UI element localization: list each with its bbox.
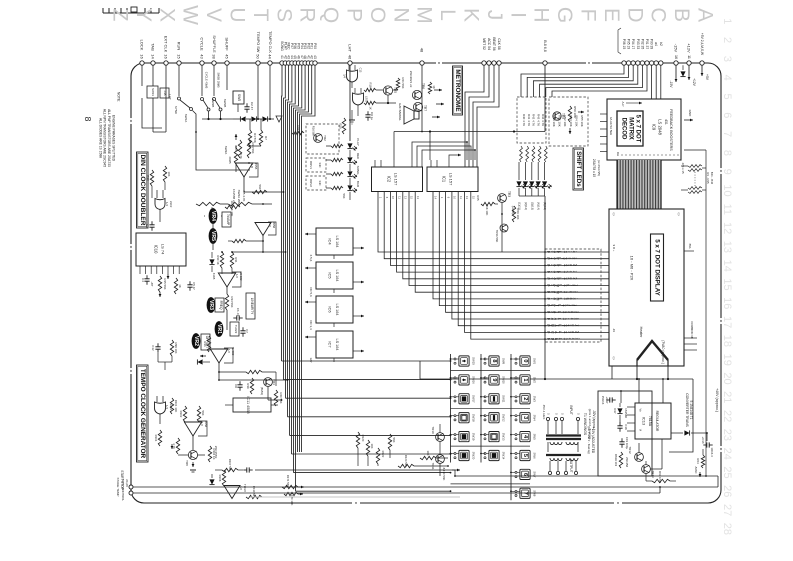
wire IC link bus bbox=[394, 130, 545, 160]
label START STOP bbox=[120, 470, 129, 490]
diode D6 bbox=[209, 252, 214, 272]
LED D2 REC bbox=[331, 153, 360, 165]
svg-text:150/16: 150/16 bbox=[601, 396, 605, 405]
terminal TEMPO LED bbox=[348, 61, 352, 65]
diode D5a bbox=[240, 116, 245, 121]
svg-text:S: S bbox=[272, 8, 295, 22]
svg-text:9: 9 bbox=[721, 169, 733, 175]
trimmer VR1 bbox=[215, 321, 224, 337]
power feed +12V bbox=[688, 65, 696, 86]
resistor R103 bbox=[197, 406, 205, 422]
svg-text:46: 46 bbox=[348, 55, 353, 60]
svg-text:PLAY: PLAY bbox=[356, 138, 360, 145]
svg-text:Heater: Heater bbox=[639, 327, 643, 339]
svg-text:SW10: SW10 bbox=[501, 376, 505, 384]
capacitor C3 bbox=[145, 221, 155, 230]
wire node 48 drop bbox=[421, 65, 423, 132]
svg-text:T1 WINDINGS: T1 WINDINGS bbox=[583, 413, 587, 436]
wire tempo led drop bbox=[349, 65, 351, 141]
svg-text:DC 3,4: DC 3,4 bbox=[309, 320, 313, 330]
svg-text:50: 50 bbox=[256, 54, 261, 59]
svg-text:METRONOME: METRONOME bbox=[454, 69, 461, 112]
svg-text:(-): (-) bbox=[677, 213, 681, 216]
diode D8 bbox=[209, 474, 214, 485]
svg-text:(pins 1 and 2 - floating): (pins 1 and 2 - floating) bbox=[588, 409, 592, 440]
svg-text:C3: C3 bbox=[145, 224, 149, 228]
svg-text:1/4: 1/4 bbox=[343, 74, 347, 78]
svg-text:ALL DIODES ARE 1S 1588: ALL DIODES ARE 1S 1588 bbox=[98, 118, 102, 158]
svg-text:SW3: SW3 bbox=[532, 396, 536, 403]
resistor R21 bbox=[396, 78, 405, 90]
wire TR10 link bbox=[436, 420, 440, 476]
svg-text:REC: REC bbox=[356, 153, 360, 160]
svg-text:B41 - B46: B41 - B46 bbox=[710, 172, 714, 185]
arrow up A1 bbox=[235, 134, 238, 140]
connector terminals metronome group bbox=[482, 61, 501, 65]
svg-text:R25: R25 bbox=[476, 195, 480, 201]
svg-text:48: 48 bbox=[420, 48, 425, 53]
svg-text:-15V: -15V bbox=[669, 81, 673, 89]
svg-text:C13: C13 bbox=[359, 68, 363, 73]
svg-text:IC7: IC7 bbox=[328, 341, 333, 348]
switch SW2B SW3B bbox=[201, 65, 228, 119]
IC4 shift register bbox=[305, 228, 364, 259]
svg-text:O: O bbox=[366, 7, 389, 23]
label box SHIFT LEDs bbox=[573, 148, 584, 190]
resistor pack RP1 bbox=[681, 162, 702, 173]
transistor TR3b bbox=[495, 224, 508, 242]
svg-text:14: 14 bbox=[721, 260, 733, 272]
resistor R105 bbox=[172, 438, 180, 454]
svg-text:R23: R23 bbox=[234, 145, 238, 151]
key switch SW5 digit 4 bbox=[515, 432, 536, 442]
op-amp U3b bbox=[255, 222, 276, 236]
svg-text:D: D bbox=[623, 7, 646, 22]
svg-text:X: X bbox=[155, 8, 178, 22]
svg-text:R18: R18 bbox=[369, 83, 373, 88]
resistor R23 bbox=[234, 140, 242, 158]
svg-text:C5 47: C5 47 bbox=[192, 282, 196, 290]
resistor pack RP2 bbox=[688, 172, 714, 194]
svg-text:b2: b2 bbox=[659, 42, 663, 46]
svg-text:R40 4.7K: R40 4.7K bbox=[522, 114, 526, 126]
svg-text:W: W bbox=[179, 5, 202, 25]
IC6 shift register bbox=[305, 296, 364, 327]
svg-text:1K: 1K bbox=[178, 284, 182, 288]
transistor TR11 bbox=[431, 455, 444, 470]
key switch SW19 bbox=[454, 432, 475, 442]
svg-text:LOCK: LOCK bbox=[140, 40, 145, 51]
svg-text:L: L bbox=[436, 9, 459, 21]
svg-text:TR3: TR3 bbox=[507, 191, 511, 197]
gate U8a bbox=[343, 65, 363, 88]
svg-text:1/2: 1/2 bbox=[268, 223, 272, 227]
wire net 372b bbox=[262, 371, 276, 373]
wire tempo terminals down bbox=[257, 65, 271, 120]
svg-text:22: 22 bbox=[721, 410, 733, 422]
svg-text:R104: R104 bbox=[154, 435, 158, 442]
power feed -15V bbox=[669, 65, 686, 88]
IC10 box bbox=[136, 233, 186, 266]
wire tr5 base bbox=[352, 88, 358, 116]
wire drop 610 bbox=[610, 365, 612, 379]
IC13 left pin stubs bbox=[627, 407, 635, 431]
label 7VA0 approx bbox=[661, 340, 665, 364]
svg-text:(or 2SA725): (or 2SA725) bbox=[597, 160, 601, 176]
resistor R124 bbox=[398, 455, 414, 468]
svg-text:P02 35: P02 35 bbox=[640, 39, 644, 50]
svg-text:4558: 4558 bbox=[204, 421, 208, 428]
border chain mark right bbox=[720, 168, 721, 452]
label +40V bbox=[715, 388, 719, 412]
svg-text:R120: R120 bbox=[361, 435, 365, 442]
svg-text:R41 4.7K: R41 4.7K bbox=[527, 114, 531, 126]
diode D7 bbox=[193, 359, 210, 364]
IC pins top stubs bbox=[375, 160, 477, 167]
label +15V adjusted bbox=[587, 426, 595, 454]
svg-text:SW4: SW4 bbox=[532, 415, 536, 422]
svg-text:P04 17: P04 17 bbox=[631, 39, 635, 50]
svg-text:A66C: A66C bbox=[694, 467, 698, 474]
label box OFFSET bbox=[201, 334, 210, 350]
svg-text:TEMPO CLOCK GENERATOR: TEMPO CLOCK GENERATOR bbox=[139, 369, 146, 459]
LED D1 PLAY bbox=[331, 138, 360, 150]
svg-text:5 x 7 DOT DISPLAY: 5 x 7 DOT DISPLAY bbox=[654, 239, 661, 296]
LED driver dashed box 1 bbox=[306, 124, 339, 154]
wire tr4 down bbox=[268, 372, 276, 400]
svg-text:26: 26 bbox=[721, 485, 733, 497]
wire ext clk 2 bbox=[153, 65, 166, 132]
grid reference letters A-Z bbox=[109, 5, 717, 25]
arrow RA out2 bbox=[578, 111, 584, 114]
svg-text:LS 157: LS 157 bbox=[394, 173, 399, 186]
transistor TR8 bbox=[185, 450, 198, 466]
svg-text:R107 56K: R107 56K bbox=[228, 459, 232, 472]
svg-text:431: 431 bbox=[664, 119, 668, 125]
wire diode row bbox=[233, 118, 274, 120]
LED D4 BAR bbox=[331, 181, 360, 199]
svg-text:11: 11 bbox=[721, 204, 733, 215]
LED driver dashed box 3 bbox=[306, 176, 326, 190]
resistor R110 bbox=[246, 486, 262, 499]
svg-text:R16 56K: R16 56K bbox=[312, 126, 316, 137]
resistor R106 bbox=[208, 446, 216, 462]
svg-text:SW7: SW7 bbox=[532, 471, 536, 478]
label 61A5 bbox=[212, 273, 216, 280]
svg-text:R7: R7 bbox=[264, 136, 268, 140]
svg-text:TEMPO CLK: TEMPO CLK bbox=[268, 31, 272, 53]
svg-text:B-8 6,8: B-8 6,8 bbox=[543, 40, 547, 52]
svg-text:RUN: RUN bbox=[177, 42, 182, 51]
svg-text:R63 0.5Ω: R63 0.5Ω bbox=[658, 471, 662, 483]
svg-text:(2)(12): (2)(12) bbox=[524, 202, 528, 210]
svg-text:R29 10K: R29 10K bbox=[516, 209, 520, 220]
svg-text:7: 7 bbox=[721, 131, 733, 137]
terminal labels CYCLE group bbox=[200, 35, 230, 59]
op-amp U4b bbox=[210, 347, 235, 363]
svg-text:B: B bbox=[670, 8, 693, 22]
wire bottom bus 1 bbox=[133, 486, 718, 488]
svg-text:(-): (-) bbox=[612, 213, 616, 216]
wire tap U3a to bus bbox=[244, 191, 284, 193]
svg-text:IC9: IC9 bbox=[652, 124, 657, 131]
svg-text:2SA733 x 15: 2SA733 x 15 bbox=[592, 159, 596, 177]
wire u4b out bbox=[218, 363, 220, 381]
terminal +12V label bbox=[687, 43, 692, 59]
svg-text:R124 56K: R124 56K bbox=[404, 455, 408, 468]
IC5 shift register bbox=[305, 262, 364, 293]
svg-text:SW3B: SW3B bbox=[223, 99, 227, 108]
resistor R125 bbox=[420, 451, 436, 460]
wire bottom bus 4 bbox=[281, 470, 456, 477]
resistor R40 bbox=[274, 390, 283, 406]
svg-text:SW6: SW6 bbox=[532, 452, 536, 459]
svg-text:R31: R31 bbox=[234, 257, 238, 263]
svg-text:TR10: TR10 bbox=[431, 426, 435, 434]
svg-text:1: 1 bbox=[721, 18, 733, 24]
transistor TR6 bbox=[409, 71, 425, 100]
resistor R25 bbox=[476, 195, 495, 215]
wire c12 net bbox=[158, 353, 172, 370]
resistor R50 bbox=[568, 106, 577, 122]
key switch SW6 digit 5 bbox=[515, 450, 536, 460]
resistor R107 bbox=[222, 459, 238, 472]
resistor array R41-R45 bbox=[520, 146, 548, 162]
svg-text:E: E bbox=[600, 8, 623, 22]
schematic sheet border bbox=[131, 63, 721, 503]
svg-text:(5)(15): (5)(15) bbox=[543, 202, 547, 210]
resistor R172 bbox=[284, 492, 303, 505]
terminal +12V bbox=[687, 61, 691, 65]
transistor TR12 bbox=[625, 446, 643, 467]
dotted link RP bbox=[694, 172, 696, 187]
wire drop 470 bbox=[469, 340, 471, 379]
terminal +5V bbox=[700, 61, 704, 65]
resistor R16b bbox=[174, 278, 182, 294]
svg-text:5: 5 bbox=[721, 93, 733, 99]
key switch SW2 digit 1 bbox=[515, 375, 536, 385]
IC output pin numbers bbox=[379, 196, 476, 199]
gnd sym tempo bbox=[190, 462, 196, 472]
svg-text:R3 56K: R3 56K bbox=[253, 133, 257, 143]
svg-text:16: 16 bbox=[674, 55, 678, 59]
resistor R64 bbox=[696, 455, 705, 468]
IC7 shift register bbox=[305, 331, 364, 362]
svg-text:SW15: SW15 bbox=[471, 357, 475, 365]
wire sw1a down bbox=[193, 111, 197, 133]
resistor R27 bbox=[220, 202, 272, 216]
capacitor C2 bbox=[244, 102, 254, 113]
switch SW1A bbox=[174, 65, 193, 122]
svg-text:(3)(13): (3)(13) bbox=[530, 202, 534, 210]
svg-text:1/2: 1/2 bbox=[227, 349, 231, 353]
DISPLAY corner marks bbox=[612, 213, 681, 360]
svg-text:56K: 56K bbox=[342, 194, 346, 199]
svg-text:4A Ab 5A 5Eb: 4A Ab 5A 5Eb bbox=[609, 117, 613, 136]
svg-text:ALL PNP TRANSISTORS ARE 2SA733: ALL PNP TRANSISTORS ARE 2SA733 bbox=[107, 109, 111, 167]
svg-text:TR8: TR8 bbox=[185, 460, 189, 466]
DISPLAY common stubs bbox=[684, 321, 697, 350]
svg-text:LS 164: LS 164 bbox=[335, 235, 339, 247]
svg-text:IC2: IC2 bbox=[387, 176, 392, 183]
svg-text:21: 21 bbox=[721, 391, 733, 403]
svg-text:P05 19: P05 19 bbox=[627, 39, 631, 50]
terminal labels TEMPO group bbox=[256, 31, 273, 59]
terminal node 545 bbox=[543, 61, 547, 65]
svg-text:1/4: 1/4 bbox=[165, 202, 169, 206]
gate U5 bbox=[155, 396, 174, 424]
svg-text:TR2: TR2 bbox=[323, 135, 327, 141]
svg-text:34C: 34C bbox=[318, 162, 322, 167]
wire net 372 bbox=[218, 371, 246, 373]
svg-text:a4: a4 bbox=[654, 42, 658, 46]
PSU outer box bbox=[598, 391, 652, 476]
diode D17 bbox=[613, 403, 628, 418]
resistor R13 bbox=[146, 170, 154, 186]
svg-text:SW91: SW91 bbox=[151, 88, 155, 96]
label converter trans bbox=[685, 393, 693, 427]
svg-text:R33 56K: R33 56K bbox=[230, 297, 234, 308]
svg-text:Z: Z bbox=[109, 9, 132, 22]
svg-text:15: 15 bbox=[721, 278, 733, 290]
svg-text:BAR: BAR bbox=[356, 181, 360, 188]
label FEEDBACK BOOSTERS bbox=[669, 109, 673, 151]
key switch SW3 digit 2 bbox=[515, 394, 536, 404]
resistor array block RA1 bbox=[517, 97, 588, 146]
svg-text:2SC2021 x3: 2SC2021 x3 bbox=[409, 71, 413, 88]
terminal +5V label bbox=[700, 33, 704, 56]
svg-text:SW17: SW17 bbox=[471, 395, 475, 403]
svg-text:+5V: +5V bbox=[705, 74, 709, 81]
resistor R19 bbox=[364, 101, 376, 110]
svg-text:(BIAS): (BIAS) bbox=[260, 387, 264, 395]
terminal -15V bbox=[674, 61, 678, 65]
wire TR3 net bbox=[495, 203, 503, 253]
svg-text:SW5: SW5 bbox=[237, 94, 241, 101]
trimmer VR2 bbox=[192, 333, 201, 349]
svg-text:25: 25 bbox=[721, 466, 733, 478]
svg-text:LINEARITY: LINEARITY bbox=[250, 298, 254, 315]
ribbon wire bundle bbox=[617, 160, 662, 209]
resistor R120 bbox=[356, 432, 365, 448]
LED D3 SONG bbox=[331, 166, 360, 179]
svg-text:R98 10K: R98 10K bbox=[174, 343, 178, 354]
wire nested link 2 bbox=[417, 146, 471, 160]
svg-text:47K x 15: 47K x 15 bbox=[681, 162, 685, 173]
svg-text:SONG: SONG bbox=[356, 166, 360, 176]
feedback U4b bbox=[224, 348, 233, 363]
svg-text:16: 16 bbox=[140, 54, 145, 59]
svg-text:V: V bbox=[202, 8, 225, 22]
wire display to PSU bbox=[420, 361, 693, 380]
svg-text:R101 10K: R101 10K bbox=[174, 400, 178, 413]
svg-text:11: 11 bbox=[687, 55, 691, 59]
svg-text:10K: 10K bbox=[426, 451, 430, 456]
svg-text:6: 6 bbox=[522, 473, 528, 476]
capacitor C11 bbox=[243, 467, 252, 472]
resistor R3 bbox=[248, 130, 257, 146]
svg-text:R43 4.7K: R43 4.7K bbox=[536, 114, 540, 126]
IC10 pins bbox=[140, 266, 179, 279]
capacitor C17 bbox=[601, 396, 616, 405]
resistor R15 bbox=[158, 276, 167, 292]
svg-text:3: 3 bbox=[721, 56, 733, 62]
svg-text:N: N bbox=[389, 7, 412, 22]
resistor R14 bbox=[163, 166, 171, 182]
transistor TR13 bbox=[642, 465, 655, 478]
svg-text:SW18: SW18 bbox=[471, 414, 475, 422]
svg-text:R55 10K: R55 10K bbox=[580, 115, 584, 126]
capacitor C5 bbox=[187, 281, 196, 290]
wire ext clk 1 bbox=[142, 65, 162, 128]
svg-text:8.170 56K: 8.170 56K bbox=[442, 468, 446, 481]
svg-text:20: 20 bbox=[721, 372, 733, 384]
border chain mark bottom bbox=[352, 502, 622, 503]
svg-text:R21 56K: R21 56K bbox=[401, 78, 405, 89]
svg-text:0: 0 bbox=[522, 359, 528, 362]
svg-text:SW20: SW20 bbox=[471, 452, 475, 460]
wire ic11 bbox=[225, 404, 278, 406]
key switch SW11 bbox=[484, 394, 505, 404]
arrow metronome out2 bbox=[436, 103, 444, 106]
svg-text:100/6.3: 100/6.3 bbox=[710, 447, 714, 457]
svg-text:5 1N4148 T1: 5 1N4148 T1 bbox=[689, 400, 693, 419]
svg-text:SW16: SW16 bbox=[471, 376, 475, 384]
svg-text:CYCLE 43M5: CYCLE 43M5 bbox=[205, 72, 209, 89]
terminal cluster P-bus labels bbox=[280, 41, 317, 59]
wire metronome link bbox=[376, 90, 398, 104]
label cluster sw2a bbox=[232, 189, 246, 207]
svg-text:+BT: +BT bbox=[150, 281, 154, 286]
label SW2A bbox=[224, 146, 232, 164]
label box METRONOME bbox=[453, 66, 463, 115]
resistor R63 bbox=[652, 471, 670, 483]
wire tap U4b to bus bbox=[219, 379, 288, 381]
svg-text:IC10: IC10 bbox=[154, 245, 159, 255]
resistor R22 bbox=[428, 82, 436, 94]
svg-text:IC1: IC1 bbox=[442, 176, 447, 183]
wire C16 node bbox=[703, 432, 708, 455]
scale ruler bbox=[103, 7, 159, 13]
svg-text:R40 56K: R40 56K bbox=[279, 393, 283, 404]
wire LED commons bbox=[519, 196, 545, 342]
svg-text:SHIFT LEDs: SHIFT LEDs bbox=[575, 151, 582, 187]
svg-text:44: 44 bbox=[268, 54, 273, 59]
svg-text:P00: P00 bbox=[313, 43, 317, 49]
svg-text:9: 9 bbox=[491, 378, 497, 381]
capacitor C9 bbox=[365, 111, 374, 120]
svg-text:LS 164: LS 164 bbox=[335, 303, 339, 315]
svg-text:B%: B% bbox=[688, 244, 692, 249]
svg-text:LS 164: LS 164 bbox=[335, 338, 339, 350]
wire gnd stub metronome bbox=[349, 110, 355, 124]
key matrix wires bbox=[448, 354, 530, 500]
svg-text:8: 8 bbox=[721, 150, 733, 156]
svg-text:R13: R13 bbox=[146, 175, 150, 181]
svg-text:5: 5 bbox=[522, 454, 528, 457]
resistor R63A bbox=[614, 452, 623, 468]
key switch SW8 digit 7 bbox=[515, 488, 536, 498]
svg-text:STAGE TEMP: STAGE TEMP bbox=[116, 477, 120, 496]
svg-text:56K 10K: 56K 10K bbox=[485, 205, 489, 216]
svg-text:LS02: LS02 bbox=[169, 201, 173, 208]
label box LINEARITY bbox=[246, 293, 255, 319]
svg-text:SW12: SW12 bbox=[501, 414, 505, 422]
svg-text:T: T bbox=[249, 9, 272, 22]
feedback wire U3b bbox=[268, 222, 276, 235]
svg-text:J: J bbox=[483, 10, 506, 21]
svg-text:CLK 58: CLK 58 bbox=[497, 38, 501, 49]
